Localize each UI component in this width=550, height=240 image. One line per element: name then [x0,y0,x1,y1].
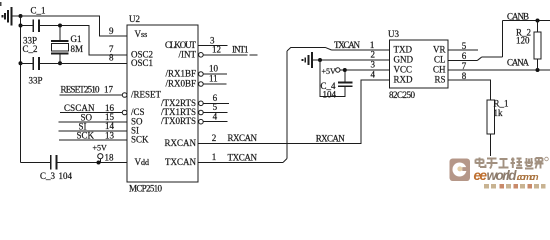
svg-text:Vdd: Vdd [135,157,150,167]
pin 5 VR stub [448,49,478,51]
svg-text:.com.cn: .com.cn [517,172,539,183]
svg-text:+5V: +5V [93,144,108,153]
power +5V terminal U3 [322,67,340,76]
U3 left pin labels [394,45,414,85]
wire crystal bottom branch [59,53,61,63]
svg-text:/RX0BF: /RX0BF [165,79,196,89]
wire OSC1 net [21,62,128,64]
svg-text:/RESET: /RESET [131,90,162,100]
svg-text:8M: 8M [71,44,84,54]
wire CANB net from pin 6 CL [448,12,550,61]
svg-text:VCC: VCC [394,65,413,75]
pin 11 /RX0BF stub [199,74,227,87]
pin 3 CLKOUT stub [198,35,228,45]
wire ground to Vss node [12,15,21,17]
svg-text:2: 2 [371,50,376,60]
svg-text:10: 10 [209,64,219,74]
pin 6 /TX2RTS stub [199,93,229,106]
svg-text:CANB: CANB [507,12,529,22]
svg-text:RXD: RXD [394,75,414,85]
node CANA R2 junction [536,68,540,72]
svg-text:+5V: +5V [322,67,337,76]
node GND C4 junction [318,58,322,62]
wire SO net [59,112,128,122]
capacitor C_1 33P [23,6,46,46]
svg-text:VR: VR [433,45,446,55]
U3 right pin numbers [462,41,467,81]
svg-text:9: 9 [109,26,114,36]
svg-text:/INT: /INT [179,49,197,59]
watermark tagline [484,184,546,189]
wire crystal top branch [59,26,61,42]
node Vss-top junction [19,14,23,18]
svg-text:U3: U3 [388,29,399,39]
IC U2 MCP2510 body [127,14,198,194]
svg-text:/RX1BF: /RX1BF [165,69,196,79]
svg-text:8: 8 [109,52,114,62]
svg-text:RXCAN: RXCAN [164,138,196,148]
svg-text:CL: CL [434,55,446,65]
node C2 junction [19,61,23,65]
svg-text:4: 4 [371,70,376,80]
svg-text:18: 18 [105,153,115,163]
ground GND1 [3,7,12,26]
svg-text:RS: RS [434,75,445,85]
svg-text:82C250: 82C250 [389,90,416,100]
pin 10 /RX1BF stub [199,64,227,77]
svg-text:G1: G1 [71,34,82,44]
svg-text:12: 12 [212,44,221,54]
svg-text:4: 4 [213,111,218,121]
capacitor C_2 33P [23,44,43,86]
node Vdd +5V junction [97,161,101,165]
svg-text:2: 2 [212,133,217,143]
pin 12 /INT wire INT1 [199,44,258,57]
svg-text:C_3: C_3 [40,171,56,181]
wire RS net pin 8 to R1 [448,80,491,100]
IC U3 82C250 body [388,29,448,100]
U2 left pin numbers [109,26,114,62]
svg-text:MCP2510: MCP2510 [129,184,163,194]
node crystal bottom junction [58,61,62,65]
wire CSCAN net [60,103,122,113]
crystal G1 8M [51,34,83,54]
watermark eeworld logo [450,159,471,182]
U2 right pin labels [161,40,196,167]
svg-text:TXCAN: TXCAN [165,157,196,167]
svg-text:6: 6 [462,51,467,61]
resistor R_2 120 [516,21,541,71]
wire RXCAN net U2 pin 2 to U3 RXD [198,80,390,144]
svg-text:/TX0RTS: /TX0RTS [161,116,196,126]
svg-text:ee: ee [474,168,488,183]
svg-text:RXCAN: RXCAN [316,134,346,144]
node C1 junction [19,24,23,28]
wire SI net [59,121,128,131]
capacitor C_4 104 [321,81,353,100]
node VCC junction [343,68,347,72]
svg-text:104: 104 [323,90,337,100]
pin 16 /CS bubble [122,110,127,115]
node crystal top junction [58,24,62,28]
svg-text:11: 11 [209,74,218,84]
wire GND to U3 pin 2 [312,59,390,61]
svg-text:OSC1: OSC1 [131,58,153,68]
wire C4 ground branch [320,60,345,97]
pin 5 /TX1RTS stub [199,102,228,115]
capacitor C_3 104 [40,155,73,181]
U3 left pin numbers [371,50,376,80]
watermark eeworld.com.cn [474,168,539,183]
svg-text:C_2: C_2 [23,44,38,54]
wire RESET2510 net [60,85,123,96]
U3 right pin labels [433,45,446,85]
watermark chinese title [476,157,549,168]
power +5V terminal [93,144,115,163]
svg-text:world: world [487,168,518,183]
svg-text:RXCAN: RXCAN [228,133,258,143]
wire VCC net to U3 pin 3 [340,69,390,71]
svg-text:R_1: R_1 [494,99,509,109]
svg-text:1k: 1k [494,108,504,118]
svg-text:RESET2510: RESET2510 [61,85,101,95]
svg-text:CH: CH [433,65,446,75]
svg-text:GND: GND [394,55,414,65]
svg-text:3: 3 [371,60,376,70]
svg-text:TXD: TXD [394,45,413,55]
svg-text:C_1: C_1 [31,6,46,16]
svg-text:CANA: CANA [507,57,530,67]
resistor R_1 1k [487,99,509,157]
svg-text:104: 104 [59,171,73,181]
svg-text:33P: 33P [29,76,43,86]
pin 17 /RESET bubble [122,93,127,98]
corner crop artifact [0,2,2,6]
svg-text:13: 13 [105,130,115,140]
svg-text:Vss: Vss [135,29,148,39]
svg-text:SCK: SCK [77,131,95,141]
wire C4 to +5V node [344,70,346,83]
pin 4 /TX0RTS stub [199,111,228,124]
svg-text:TXCAN: TXCAN [228,152,258,162]
wire top rail to U2 pin 9 Vss [21,16,128,36]
wire TXCAN net U2 pin 1 to U3 TXD [198,40,390,163]
ground GND2 [303,52,313,68]
svg-text:1: 1 [212,152,217,162]
svg-text:INT1: INT1 [232,44,249,54]
wire CANA net from pin 7 CH [448,57,550,70]
svg-text:120: 120 [516,36,530,46]
svg-text:17: 17 [104,85,114,95]
node CANB R2 junction [536,19,540,23]
wire SCK net [59,130,127,140]
wire OSC2 net [21,26,128,56]
svg-text:1: 1 [370,40,375,50]
wire Vdd net [21,162,128,164]
wire left vertical ground bus [20,16,22,163]
svg-text:SCK: SCK [131,135,149,145]
svg-text:U2: U2 [129,14,140,24]
U2 left pin labels [131,29,162,167]
svg-text:TXCAN: TXCAN [334,40,361,50]
